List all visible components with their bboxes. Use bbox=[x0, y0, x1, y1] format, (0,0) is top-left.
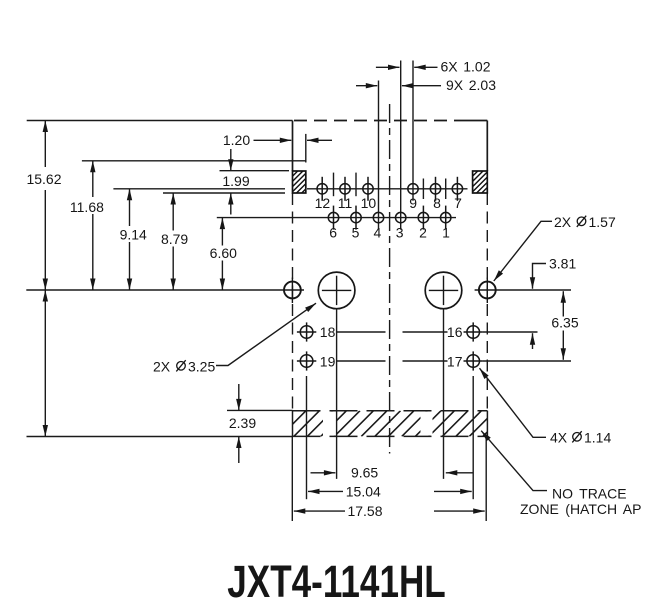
dimension 15.62 bbox=[44, 121, 46, 291]
pad 9 dimension riser line bbox=[412, 61, 414, 201]
connector body top edge extension line bbox=[27, 120, 293, 122]
svg-text:2X: 2X bbox=[153, 359, 171, 375]
leader NO TRACE ZONE bbox=[481, 431, 547, 491]
svg-text:1.14: 1.14 bbox=[584, 430, 611, 446]
top pad row line through pads bbox=[307, 188, 468, 190]
pad 18/19 column line down bbox=[306, 376, 308, 499]
svg-text:3.81: 3.81 bbox=[549, 255, 576, 271]
dimension 17.58 bbox=[294, 510, 485, 512]
pad 18 bbox=[297, 322, 316, 341]
pad number labels bottom row bbox=[329, 225, 450, 241]
svg-text:12: 12 bbox=[315, 195, 331, 211]
shield tab (hatched) right bbox=[451, 171, 509, 193]
connector body left edge (solid upper part) bbox=[292, 121, 294, 172]
svg-text:7: 7 bbox=[454, 195, 462, 211]
dimension 3.81 bbox=[533, 264, 547, 350]
extension line top pad row (9.14) bbox=[113, 188, 285, 190]
connector body left edge (hidden/dashed lower part) bbox=[292, 193, 294, 411]
svg-text:9: 9 bbox=[409, 195, 417, 211]
right big hole 3.25 bbox=[425, 272, 462, 309]
connector body right edge (hidden/dashed lower part) bbox=[486, 193, 488, 411]
row line pads 18-16 bbox=[336, 331, 537, 333]
pad 4 dimension riser line bbox=[378, 81, 380, 230]
svg-text:15.04: 15.04 bbox=[346, 483, 381, 499]
svg-text:1: 1 bbox=[442, 225, 450, 241]
big hole column lines down to 9.65 dim bbox=[337, 309, 444, 479]
dimension 9.14 bbox=[129, 189, 131, 290]
1.20 right extension line bbox=[305, 134, 307, 163]
extension line 2.39 top (strip top extended) bbox=[227, 409, 293, 411]
dimension 9X 2.03 bbox=[356, 85, 441, 87]
left strip edge extension below bbox=[291, 436, 293, 521]
bottom row pads 6 5 4 3 2 1 bbox=[328, 206, 451, 230]
no trace zone strip edges bbox=[293, 411, 488, 437]
pad number labels top row bbox=[315, 195, 462, 211]
svg-text:1.57: 1.57 bbox=[589, 214, 616, 230]
svg-text:6: 6 bbox=[329, 225, 337, 241]
dimension 1.99 (outside arrows) bbox=[230, 149, 232, 215]
svg-text:4X: 4X bbox=[550, 430, 568, 446]
extension line tab bottom (8.79 / 1.99) bbox=[163, 192, 285, 194]
vertical centerline (dashed) bbox=[389, 104, 391, 454]
left big hole 3.25 bbox=[318, 272, 355, 309]
svg-text:8: 8 bbox=[433, 195, 441, 211]
dimension 11.68 bbox=[92, 161, 94, 290]
svg-text:5: 5 bbox=[352, 225, 360, 241]
svg-text:9.14: 9.14 bbox=[120, 226, 147, 242]
svg-text:2.39: 2.39 bbox=[229, 415, 256, 431]
svg-text:2X: 2X bbox=[554, 214, 572, 230]
pad 17 bbox=[464, 351, 483, 370]
extension line for 11.68 dim bbox=[82, 160, 306, 162]
pad 3 dimension riser line bbox=[400, 61, 402, 230]
svg-text:1.20: 1.20 bbox=[223, 132, 250, 148]
svg-text:15.62: 15.62 bbox=[26, 171, 61, 187]
dimension 15.04 bbox=[308, 490, 472, 492]
svg-text:8.79: 8.79 bbox=[161, 231, 188, 247]
leader 4X 1.14 bbox=[480, 368, 547, 437]
dimension 8.79 bbox=[172, 193, 174, 290]
svg-text:17: 17 bbox=[447, 353, 463, 369]
row line pads 19-17 bbox=[336, 360, 571, 362]
svg-text:9X 2.03: 9X 2.03 bbox=[446, 77, 496, 93]
unlabeled lower left dimension bbox=[44, 290, 46, 437]
svg-text:11.68: 11.68 bbox=[70, 199, 104, 215]
svg-text:3.25: 3.25 bbox=[188, 359, 215, 375]
svg-text:3: 3 bbox=[396, 225, 404, 241]
top row pads 12 11 10 9 8 7 bbox=[317, 177, 463, 201]
svg-text:2: 2 bbox=[419, 225, 427, 241]
svg-text:NO TRACE: NO TRACE bbox=[552, 486, 627, 502]
svg-text:16: 16 bbox=[447, 324, 463, 340]
left mounting hole 1.57 bbox=[284, 278, 301, 304]
svg-text:4: 4 bbox=[374, 225, 382, 241]
horizontal centerline left segment bbox=[26, 289, 304, 291]
svg-text:1.99: 1.99 bbox=[222, 173, 249, 189]
extension line 1.99 top (tab top extended) bbox=[220, 170, 290, 172]
risers above staggered pads bbox=[334, 173, 446, 199]
svg-text:ZONE (HATCH AP: ZONE (HATCH AP bbox=[520, 501, 641, 517]
svg-text:10: 10 bbox=[361, 195, 377, 211]
svg-text:18: 18 bbox=[320, 324, 336, 340]
svg-text:19: 19 bbox=[320, 353, 336, 369]
svg-text:6X 1.02: 6X 1.02 bbox=[441, 59, 491, 75]
shield tab (hatched) left bbox=[271, 171, 329, 193]
connector body top edge (hidden/dashed) bbox=[294, 120, 461, 122]
pad 16/17 column line down bbox=[472, 376, 474, 499]
right strip edge extension below bbox=[485, 436, 487, 521]
svg-text:JXT4-1141HL: JXT4-1141HL bbox=[227, 556, 445, 607]
no trace zone strip hatch bbox=[267, 411, 509, 437]
dimension 6X 1.02 bbox=[376, 66, 438, 68]
dimension 6.60 bbox=[221, 218, 223, 290]
leader 2X 3.25 bbox=[216, 303, 316, 365]
dimension 6.35 bbox=[562, 291, 564, 360]
dimension 2.39 (strip height, outside arrows) bbox=[238, 384, 240, 463]
dimension 9.65 bbox=[311, 472, 473, 474]
connector body right edge (solid upper part) bbox=[486, 121, 488, 172]
leader 2X 1.57 bbox=[494, 221, 552, 281]
svg-text:11: 11 bbox=[338, 195, 353, 211]
horizontal centerline right segment bbox=[475, 289, 571, 291]
pad 16 bbox=[464, 322, 483, 341]
dimension 1.20 (tab width) bbox=[254, 139, 333, 141]
bottom pad row line through pads (6.60 extension) bbox=[217, 217, 456, 219]
pad 19 bbox=[297, 351, 316, 370]
svg-text:6.60: 6.60 bbox=[210, 245, 237, 261]
svg-text:17.58: 17.58 bbox=[347, 503, 382, 519]
bottom long extension line (strip bottom extended) bbox=[27, 436, 293, 438]
svg-text:9.65: 9.65 bbox=[351, 465, 378, 481]
svg-text:6.35: 6.35 bbox=[551, 315, 578, 331]
right mounting hole 1.57 bbox=[479, 278, 496, 304]
